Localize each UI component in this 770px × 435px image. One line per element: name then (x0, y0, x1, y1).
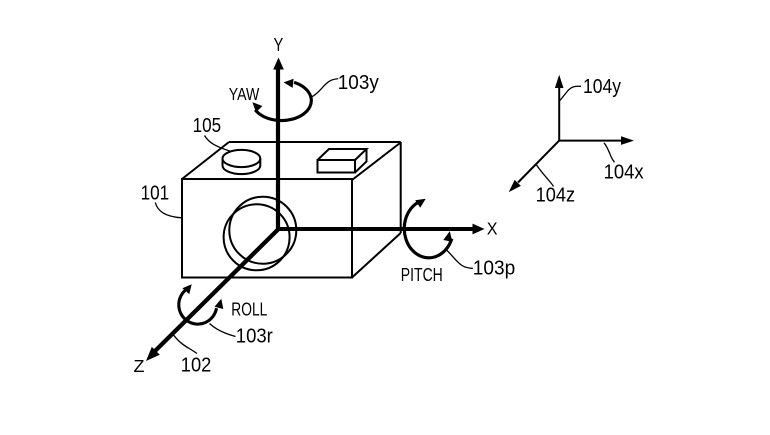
Y axis (276, 69, 280, 231)
svg-text:103y: 103y (338, 72, 379, 94)
svg-text:103p: 103p (473, 258, 516, 280)
yaw arc arrowhead right (284, 79, 294, 88)
svg-text:104z: 104z (536, 184, 576, 206)
roll rotation arc 103r (179, 289, 217, 324)
roll arc arrowhead top (182, 284, 191, 294)
leader 101 (155, 203, 181, 218)
104 Y arrowhead (555, 75, 564, 88)
camera body bottom-right slant edge (352, 233, 401, 278)
svg-text:101: 101 (141, 183, 170, 205)
camera body back top edge (229, 141, 401, 143)
leader 104y (560, 86, 581, 100)
svg-text:PITCH: PITCH (401, 264, 443, 285)
camera body top-left slant edge (182, 142, 229, 179)
104 X arrowhead (621, 136, 634, 145)
reference axes 104 Y (558, 88, 560, 141)
reference axes 104 Z (518, 141, 559, 183)
svg-text:YAW: YAW (229, 84, 260, 104)
leader 104z (537, 165, 554, 187)
pitch arc arrowhead right (443, 231, 452, 242)
svg-text:ROLL: ROLL (231, 300, 267, 320)
svg-text:102: 102 (181, 354, 212, 376)
Z axis arrowhead (146, 347, 160, 361)
lens front circle (224, 204, 290, 270)
viewfinder block on top (318, 149, 367, 173)
leader 102 (173, 334, 198, 354)
leader 103p (446, 250, 473, 269)
lens back circle (229, 197, 296, 264)
leader 104x (604, 143, 615, 163)
svg-text:103r: 103r (236, 326, 273, 348)
leader 103y (312, 79, 339, 97)
svg-text:Z: Z (134, 356, 145, 376)
svg-text:105: 105 (193, 115, 222, 137)
camera body back right edge (400, 142, 402, 233)
svg-text:X: X (487, 219, 498, 239)
Y axis arrowhead (273, 58, 284, 70)
104 Z arrowhead (509, 180, 521, 192)
leader 105 (205, 136, 231, 152)
svg-text:104y: 104y (583, 76, 621, 98)
shutter button 105 cylinder (223, 150, 261, 174)
leader 103r (210, 324, 236, 337)
svg-text:104x: 104x (604, 161, 644, 183)
roll arc arrowhead right (215, 299, 224, 309)
camera body 101 front face (182, 179, 352, 278)
svg-text:Y: Y (274, 35, 284, 55)
camera body top-right slant edge (352, 143, 401, 181)
reference axes 104 X (559, 140, 621, 142)
X axis arrowhead (473, 224, 485, 235)
pitch rotation arc 103p (404, 202, 452, 258)
yaw arc arrowhead left (252, 102, 262, 112)
yaw rotation arc 103y (255, 82, 311, 120)
pitch arc arrowhead top (415, 199, 426, 208)
X axis (278, 227, 474, 231)
Z axis (154, 230, 279, 353)
